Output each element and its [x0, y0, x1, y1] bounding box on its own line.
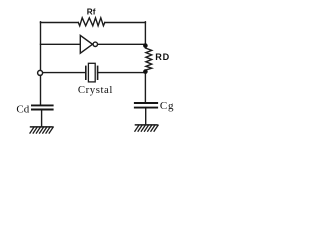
- wire top-right segment: [105, 22, 146, 24]
- svg-text:Cd: Cd: [16, 104, 29, 116]
- resistor RD: [145, 46, 151, 71]
- inverter bubble: [93, 42, 97, 46]
- crystal left plate: [85, 66, 87, 80]
- wire right rail lower: [144, 71, 146, 103]
- node A (open junction on left rail): [38, 70, 43, 75]
- wire crystal left: [42, 72, 85, 74]
- junction dot (inverter output / RD top): [143, 43, 148, 48]
- resistor Rf: [78, 18, 105, 26]
- capacitor Cd: [31, 105, 54, 109]
- svg-text:Cg: Cg: [160, 100, 174, 112]
- wire inverter input: [41, 43, 81, 45]
- svg-text:Crystal: Crystal: [78, 84, 113, 96]
- svg-text:RD: RD: [155, 52, 170, 62]
- capacitor Cg: [134, 103, 158, 108]
- svg-text:Rf: Rf: [87, 8, 96, 17]
- junction dot (crystal / RD bottom): [143, 69, 148, 74]
- ground (left): [30, 127, 54, 134]
- op-amp U1 (inverter triangle): [80, 35, 97, 53]
- wire Cd to ground: [41, 110, 43, 127]
- wire right rail upper: [144, 22, 146, 46]
- wire crystal right: [98, 72, 146, 74]
- crystal body: [88, 63, 95, 82]
- wire Cg to ground: [145, 108, 147, 125]
- ground (right): [135, 125, 159, 132]
- wire left rail: [40, 22, 42, 106]
- crystal right plate: [97, 66, 99, 80]
- wire inverter output: [98, 43, 146, 45]
- wire top-left segment: [41, 22, 79, 24]
- crystal X1: [86, 63, 98, 82]
